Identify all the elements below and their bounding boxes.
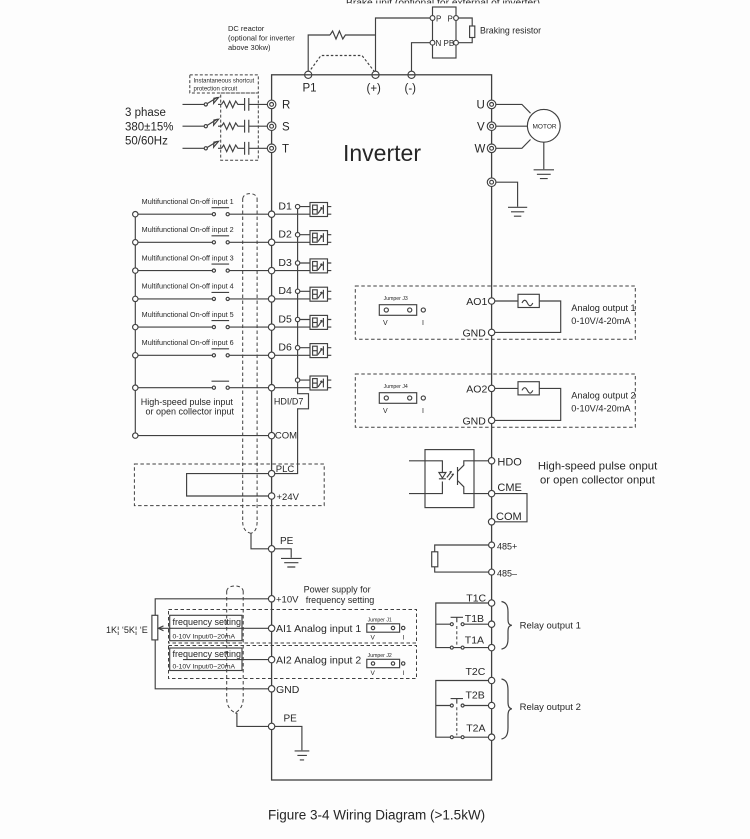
- svg-text:Relay output 2: Relay output 2: [520, 702, 581, 713]
- brake unit terminal N (left): [430, 40, 435, 45]
- svg-text:CME: CME: [497, 482, 521, 494]
- wire PE right to ground: [496, 182, 518, 207]
- dashed box analog output 1: [355, 286, 635, 339]
- label AI2: [276, 655, 361, 667]
- dashed box RC network: [221, 93, 259, 160]
- label T2B: [466, 690, 485, 702]
- label D2: [278, 229, 292, 241]
- label GND: [276, 684, 300, 696]
- label D6: [278, 342, 292, 354]
- svg-text:N: N: [436, 39, 442, 48]
- svg-text:Analog output 1: Analog output 1: [571, 303, 635, 313]
- optocoupler D4: [310, 287, 328, 301]
- meter AO2: [518, 382, 539, 395]
- shield drain 2 to PE: [235, 713, 268, 727]
- svg-text:Brake unit (optional for exter: Brake unit (optional for external of inv…: [346, 0, 540, 7]
- label analog output 1: [571, 303, 635, 326]
- terminal T2A: [488, 734, 494, 740]
- terminal (+): [372, 71, 379, 78]
- wire motor to ground: [543, 142, 545, 169]
- svg-text:P1: P1: [303, 83, 317, 95]
- terminal PE: [268, 546, 274, 552]
- switch D6: [212, 348, 230, 350]
- label DC reactor: [228, 24, 295, 52]
- svg-text:AO2: AO2: [466, 383, 487, 395]
- terminal T1C: [488, 600, 494, 606]
- wire AI1 with wiper arrow: [163, 627, 269, 629]
- terminal HDO: [488, 458, 494, 464]
- svg-text:COM: COM: [496, 511, 522, 523]
- label +24V: [277, 492, 300, 503]
- svg-text:Power supply for: Power supply for: [304, 584, 371, 594]
- phase R resistor: [222, 101, 240, 108]
- terminal HDI: [268, 385, 274, 391]
- label high-speed pulse input: [141, 397, 235, 417]
- svg-text:PLC: PLC: [276, 464, 295, 475]
- label multifunctional input 5: [142, 312, 234, 319]
- node left bus D4: [133, 296, 138, 301]
- svg-text:T: T: [282, 144, 289, 156]
- svg-text:3 phase: 3 phase: [125, 107, 166, 119]
- svg-text:Multifunctional On-off input 5: Multifunctional On-off input 5: [142, 312, 234, 319]
- shielded cable capsule (digital): [243, 194, 257, 534]
- label T1B: [465, 613, 484, 625]
- label T1C: [466, 593, 486, 605]
- resistor 485: [432, 552, 438, 567]
- switch D1: [212, 207, 230, 209]
- wire potentiometer bottom to GND: [155, 640, 268, 689]
- wire COM row: [138, 435, 268, 437]
- ground (PE right): [508, 207, 527, 216]
- svg-text:485+: 485+: [497, 541, 517, 551]
- svg-text:T2A: T2A: [466, 722, 485, 734]
- terminal PLC: [268, 470, 274, 476]
- label T1A: [465, 635, 484, 647]
- labels P1 (+) (-): [303, 83, 417, 96]
- node common D5: [295, 317, 299, 321]
- svg-text:0-10V/4-20mA: 0-10V/4-20mA: [571, 316, 631, 326]
- label 485-: [497, 568, 517, 578]
- relay 2 contact T2B: [436, 705, 489, 707]
- label CME: [497, 482, 521, 494]
- common vertical of optocouplers: [275, 207, 309, 474]
- HDO opto input wires: [409, 461, 442, 494]
- braking resistor: [470, 26, 475, 38]
- label U: [477, 100, 485, 112]
- terminal V: [487, 122, 496, 131]
- terminal AO1: [488, 298, 494, 304]
- switch D3: [212, 263, 230, 265]
- svg-text:HDI/D7: HDI/D7: [274, 397, 304, 407]
- label multifunctional input 3: [142, 255, 234, 262]
- label Inverter: [343, 140, 421, 166]
- svg-text:above 30kw): above 30kw): [228, 43, 271, 52]
- label power supply for frequency setting: [304, 584, 375, 605]
- node common D3: [295, 261, 299, 265]
- terminal GND (AO1): [488, 329, 494, 335]
- label multifunctional input 4: [142, 284, 234, 291]
- label high-speed pulse output: [538, 460, 658, 486]
- wire reactor to (+) riser: [349, 34, 376, 36]
- phase S capacitor: [240, 120, 268, 133]
- node left bus D5: [133, 324, 138, 329]
- HDO opto light arrows: [447, 471, 454, 480]
- terminal T2C: [488, 677, 494, 683]
- phase T switch: [204, 147, 207, 150]
- svg-text:V: V: [383, 408, 388, 415]
- terminal GND (AO2): [488, 417, 494, 423]
- phase R capacitor: [240, 98, 268, 111]
- node left bus D2: [133, 240, 138, 245]
- svg-text:S: S: [282, 121, 290, 133]
- label multifunctional input 1: [142, 199, 234, 206]
- relay 2 contact T2A: [450, 736, 453, 739]
- svg-text:T1A: T1A: [465, 635, 484, 647]
- label multifunctional input 6: [142, 340, 234, 347]
- phase S wire: [183, 125, 205, 127]
- dashed bypass link P1 to (+): [308, 56, 375, 74]
- terminal +24V: [268, 493, 274, 499]
- svg-text:U: U: [477, 100, 485, 112]
- svg-text:AO1: AO1: [466, 296, 487, 308]
- frequency setting block 1: [170, 615, 242, 640]
- svg-text:Instantaneous shortcut: Instantaneous shortcut: [194, 78, 255, 84]
- terminal COM (right): [488, 519, 494, 525]
- optocoupler D6: [310, 344, 328, 358]
- label V: [477, 121, 485, 133]
- label analog output 2: [571, 390, 635, 413]
- label S: [282, 121, 290, 133]
- svg-text:P: P: [448, 15, 453, 24]
- potentiometer: [152, 615, 158, 640]
- optocoupler HDO box: [425, 450, 474, 508]
- label T: [282, 144, 289, 156]
- svg-text:Relay output 1: Relay output 1: [520, 621, 581, 632]
- jumper J1: [368, 617, 392, 623]
- svg-text:Multifunctional On-off input 4: Multifunctional On-off input 4: [142, 284, 234, 291]
- svg-text:+24V: +24V: [277, 492, 300, 503]
- phase T wire to resistor: [218, 147, 222, 149]
- label D1: [278, 201, 292, 213]
- label T2A: [466, 722, 485, 734]
- node left bus D6: [133, 353, 138, 358]
- switch D4: [212, 291, 230, 293]
- terminal T: [267, 144, 276, 153]
- wire D2 row: [138, 235, 331, 243]
- terminal +10V: [268, 596, 274, 602]
- svg-text:frequency setting: frequency setting: [306, 595, 375, 605]
- frequency setting block 2: [170, 648, 242, 671]
- wire PE to ground: [275, 549, 291, 558]
- wire CME-COM loop: [495, 494, 527, 522]
- label 485+: [497, 541, 517, 551]
- left bus (digital inputs): [134, 214, 136, 435]
- svg-text:COM: COM: [275, 431, 297, 442]
- svg-text:T1B: T1B: [465, 613, 484, 625]
- svg-text:frequency setting: frequency setting: [173, 617, 242, 627]
- svg-text:or open collector onput: or open collector onput: [540, 475, 656, 487]
- shielded cable capsule (analog): [227, 586, 244, 713]
- wire AO1 to meter loop: [495, 301, 561, 332]
- svg-text:T2C: T2C: [466, 666, 486, 678]
- wire (-) riser to brake unit N: [412, 43, 431, 75]
- brake unit terminal P (left): [430, 16, 435, 21]
- label relay output 2: [520, 702, 581, 713]
- terminal T1B: [488, 621, 494, 627]
- terminal U: [487, 100, 496, 109]
- svg-text:(optional for inverter: (optional for inverter: [228, 34, 295, 43]
- node common D4: [295, 289, 299, 293]
- label 3 phase source: [125, 107, 174, 148]
- wire D4 row: [138, 291, 331, 299]
- svg-text:V: V: [371, 635, 376, 642]
- dashed box AI2: [169, 646, 417, 679]
- svg-text:485–: 485–: [497, 568, 517, 578]
- switch D5: [212, 320, 230, 322]
- label R: [282, 100, 290, 112]
- svg-text:PE: PE: [284, 714, 298, 725]
- node common HDI: [295, 378, 299, 382]
- label AO2: [466, 383, 487, 395]
- label D4: [278, 285, 292, 297]
- svg-text:W: W: [475, 144, 486, 156]
- relay 1 contact T1A: [450, 646, 453, 649]
- wire brake P to braking resistor: [458, 18, 472, 26]
- svg-text:Multifunctional On-off input 3: Multifunctional On-off input 3: [142, 255, 234, 262]
- label +10V: [276, 595, 299, 606]
- phase S resistor: [222, 123, 240, 130]
- svg-text:Multifunctional On-off input 2: Multifunctional On-off input 2: [142, 227, 234, 234]
- node left bus HDI: [133, 385, 138, 390]
- ground (motor): [534, 170, 554, 179]
- optocoupler HDI: [310, 376, 328, 390]
- dashed box instantaneous shortcut protection circuit: [190, 75, 258, 93]
- label multifunctional input 2: [142, 227, 234, 234]
- svg-text:GND: GND: [463, 327, 487, 339]
- label COM: [275, 431, 297, 442]
- phase S wire to resistor: [218, 125, 222, 127]
- terminal D5: [268, 324, 274, 330]
- svg-text:(-): (-): [405, 83, 417, 95]
- phase T wire: [183, 147, 205, 149]
- terminal D4: [268, 296, 274, 302]
- svg-text:GND: GND: [463, 415, 487, 427]
- dashed box AI1: [169, 610, 417, 644]
- phase S switch: [204, 125, 207, 128]
- svg-text:V: V: [477, 121, 485, 133]
- DC reactor (resistor zigzag): [330, 31, 349, 39]
- svg-text:Jumper J1: Jumper J1: [368, 617, 392, 623]
- label GND (AO1): [463, 327, 487, 339]
- terminal 485+: [489, 542, 495, 548]
- terminal AI2: [268, 656, 274, 662]
- relay 1 contact T1B: [436, 623, 489, 625]
- HDO opto transistor: [458, 461, 489, 494]
- wire U to motor: [496, 104, 531, 113]
- phase T resistor: [222, 145, 240, 152]
- label HDI/D7: [274, 397, 304, 407]
- label potentiometer 1K/5K: [106, 625, 148, 635]
- svg-text:High-speed pulse onput: High-speed pulse onput: [538, 460, 658, 472]
- wire P1 riser: [308, 35, 330, 75]
- svg-text:P: P: [436, 15, 441, 24]
- svg-text:PB: PB: [444, 39, 455, 48]
- wire V to motor: [496, 125, 528, 127]
- svg-text:D1: D1: [278, 201, 292, 213]
- label AO1: [466, 296, 487, 308]
- terminal D6: [268, 352, 274, 358]
- phase R wire to resistor: [218, 103, 222, 105]
- terminal PE (analog): [268, 723, 274, 729]
- svg-text:Inverter: Inverter: [343, 140, 421, 166]
- svg-text:380±15%: 380±15%: [125, 122, 174, 134]
- svg-text:AI2 Analog input 2: AI2 Analog input 2: [276, 655, 361, 667]
- brace relay 1: [502, 602, 512, 650]
- jumper J2: [368, 653, 392, 659]
- terminal COM: [268, 432, 274, 438]
- svg-text:0-10V Input/0~20mA: 0-10V Input/0~20mA: [173, 664, 236, 671]
- label GND (AO2): [463, 415, 487, 427]
- svg-text:High-speed pulse input: High-speed pulse input: [141, 397, 234, 407]
- svg-text:I: I: [403, 670, 405, 677]
- switch HDI: [212, 380, 230, 382]
- node left bus D3: [133, 268, 138, 273]
- svg-text:T2B: T2B: [466, 690, 485, 702]
- relay 2 actuator dashed: [456, 707, 458, 735]
- optocoupler D1: [310, 203, 328, 217]
- svg-text:frequency setting: frequency setting: [173, 649, 242, 659]
- svg-text:0-10V Input/0~20mA: 0-10V Input/0~20mA: [173, 634, 236, 641]
- label W: [475, 144, 486, 156]
- terminal T2B: [488, 702, 494, 708]
- node left bus COM: [133, 433, 138, 438]
- svg-text:HDO: HDO: [497, 457, 522, 469]
- svg-text:I: I: [422, 408, 424, 415]
- wire PE2 to ground: [275, 726, 302, 750]
- wire W to motor: [496, 140, 531, 149]
- node common D1: [295, 204, 299, 208]
- svg-text:D4: D4: [278, 285, 292, 297]
- svg-text:Multifunctional On-off input 6: Multifunctional On-off input 6: [142, 340, 234, 347]
- terminal W: [487, 144, 496, 153]
- brake unit box: [433, 7, 457, 58]
- relay 2 box: [436, 681, 489, 738]
- svg-text:or open collector input: or open collector input: [146, 407, 235, 417]
- svg-text:D6: D6: [278, 342, 292, 354]
- label D5: [278, 313, 292, 325]
- optocoupler D5: [310, 315, 328, 329]
- wire 485 terminating resistor loop: [435, 545, 489, 572]
- wire AI2: [183, 659, 268, 661]
- terminal D1: [268, 211, 274, 217]
- jumper J3: [384, 296, 408, 302]
- label AI1: [276, 623, 361, 635]
- label PE 2: [284, 714, 298, 725]
- label D3: [278, 257, 292, 269]
- shield drain wire to PE: [251, 533, 268, 549]
- terminal D3: [268, 267, 274, 273]
- terminal T1A: [488, 644, 494, 650]
- meter AO1: [518, 294, 539, 307]
- svg-text:0-10V/4-20mA: 0-10V/4-20mA: [571, 403, 631, 413]
- svg-text:MOTOR: MOTOR: [533, 124, 557, 131]
- svg-text:T1C: T1C: [466, 593, 486, 605]
- wire braking resistor to PB: [458, 38, 472, 43]
- svg-text:DC reactor: DC reactor: [228, 24, 265, 33]
- phase T capacitor: [240, 142, 268, 155]
- terminal PE right: [487, 178, 496, 187]
- svg-text:R: R: [282, 100, 290, 112]
- phase R switch: [204, 103, 207, 106]
- wire D3 row: [138, 263, 331, 271]
- svg-text:Jumper J2: Jumper J2: [368, 653, 392, 659]
- dashed box PLC/+24V: [134, 464, 324, 506]
- relay 1 box: [436, 603, 489, 648]
- label T2C: [466, 666, 486, 678]
- caption Figure 3-4: [268, 808, 485, 823]
- svg-text:50/60Hz: 50/60Hz: [125, 136, 168, 148]
- svg-text:GND: GND: [276, 684, 300, 696]
- ground (PE analog): [295, 751, 310, 760]
- switch D2: [212, 235, 230, 237]
- terminal 485-: [489, 569, 495, 575]
- phase R wire: [183, 103, 205, 105]
- svg-text:AI1 Analog input 1: AI1 Analog input 1: [276, 623, 361, 635]
- node common D2: [295, 233, 299, 237]
- svg-text:protection circuit: protection circuit: [194, 87, 238, 93]
- label HDO: [497, 457, 522, 469]
- wire D5 row: [138, 320, 331, 328]
- svg-text:Analog output 2: Analog output 2: [571, 390, 635, 400]
- svg-text:Braking resistor: Braking resistor: [480, 26, 541, 36]
- svg-text:Figure 3-4 Wiring Diagram (>1.: Figure 3-4 Wiring Diagram (>1.5kW): [268, 808, 485, 823]
- HDO opto LED: [439, 473, 446, 479]
- terminal P1: [305, 71, 312, 78]
- terminal CME: [488, 490, 494, 496]
- svg-text:V: V: [371, 670, 376, 677]
- svg-text:Multifunctional On-off input 1: Multifunctional On-off input 1: [142, 199, 234, 206]
- svg-text:PE: PE: [280, 536, 294, 547]
- label PE: [280, 536, 294, 547]
- relay 1 actuator dashed: [456, 626, 458, 646]
- wire HDI row: [138, 380, 331, 388]
- jumper J4: [384, 384, 408, 390]
- svg-text:V: V: [383, 320, 388, 327]
- svg-text:I: I: [403, 635, 405, 642]
- wire +10V to potentiometer top: [155, 599, 268, 616]
- node common D6: [295, 346, 299, 350]
- node left bus D1: [133, 212, 138, 217]
- terminal S: [267, 122, 276, 131]
- wire (+) riser to brake unit P: [376, 18, 431, 75]
- brake unit terminal P (right): [454, 16, 459, 21]
- label protection circuit: [194, 78, 255, 92]
- label PLC: [276, 464, 295, 475]
- label COM (right): [496, 511, 522, 523]
- terminal AI1: [268, 625, 274, 631]
- svg-text:(+): (+): [367, 83, 382, 95]
- svg-text:I: I: [422, 320, 424, 327]
- terminal AO2: [488, 385, 494, 391]
- brake unit terminal PB (right): [454, 40, 459, 45]
- dashed box analog output 2: [355, 374, 635, 427]
- optocoupler D3: [310, 259, 328, 273]
- svg-text:D5: D5: [278, 313, 292, 325]
- motor M: [527, 109, 560, 142]
- brake unit pin labels: [436, 15, 455, 49]
- wire PLC to +24V jumper loop: [187, 474, 269, 496]
- svg-text:D3: D3: [278, 257, 292, 269]
